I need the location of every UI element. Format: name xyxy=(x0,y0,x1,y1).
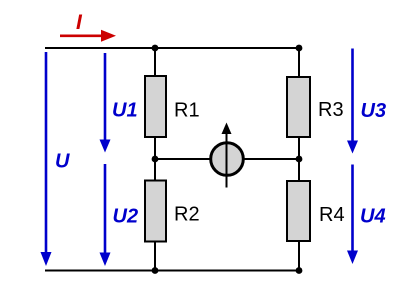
node: top-right junction xyxy=(296,45,303,52)
svg-text:U2: U2 xyxy=(113,206,139,228)
voltage arrow U2 xyxy=(100,164,139,266)
wire: left branch bottom (R2 to bottom node) xyxy=(154,242,156,270)
svg-text:R4: R4 xyxy=(319,204,345,226)
wire: right branch bottom (R4 to bottom node) xyxy=(298,241,300,270)
wire: left branch top (node to R1) xyxy=(154,48,156,76)
node: bottom-right junction xyxy=(296,267,303,274)
voltage arrow U (left outer, downward) xyxy=(41,52,71,266)
resistor R2 xyxy=(145,181,200,242)
wire: middle left (node to source circle) xyxy=(155,158,211,160)
svg-text:U3: U3 xyxy=(361,100,387,122)
current arrow I (red) xyxy=(60,11,116,42)
resistor R3 xyxy=(287,77,344,137)
node: top-left junction xyxy=(152,45,159,52)
node: middle-left junction xyxy=(152,156,159,163)
svg-text:R1: R1 xyxy=(174,100,200,122)
wire: left branch middle (R1 to R2) xyxy=(154,137,156,180)
svg-text:U: U xyxy=(55,151,70,173)
voltage arrow U1 xyxy=(100,53,138,153)
wire: middle right (source circle to node) xyxy=(243,158,299,160)
svg-text:U4: U4 xyxy=(360,206,386,228)
voltage arrow U4 xyxy=(347,165,386,265)
current source (circle with upward arrow) xyxy=(211,123,244,188)
wire: bottom horizontal xyxy=(45,270,299,272)
wire: right branch middle (R3 to R4) xyxy=(298,137,300,181)
wire: top horizontal xyxy=(45,47,299,49)
resistor R1 xyxy=(145,76,200,137)
svg-text:R2: R2 xyxy=(174,204,200,226)
resistor R4 xyxy=(287,181,345,241)
voltage arrow U3 xyxy=(347,49,386,154)
node: bottom-left junction xyxy=(152,267,159,274)
svg-text:U1: U1 xyxy=(112,100,138,122)
svg-text:R3: R3 xyxy=(318,99,344,121)
wire: right branch top (node to R3) xyxy=(298,48,300,77)
node: middle-right junction xyxy=(296,156,303,163)
